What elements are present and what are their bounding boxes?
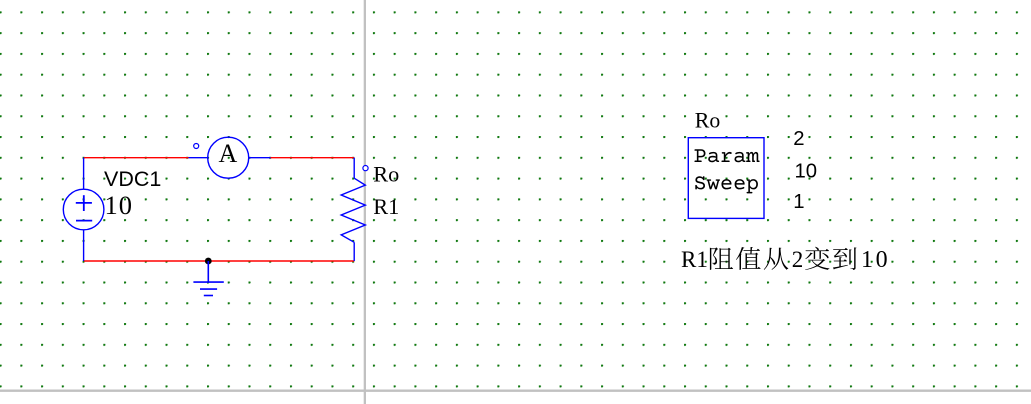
svg-text:A: A [219,139,238,168]
page boundary horizontal line [0,390,1031,392]
wire: top-right horizontal red net from ammeter to resistor [271,157,355,159]
ground symbol [193,261,223,296]
svg-text:10: 10 [795,160,818,182]
text Param [694,149,759,162]
node bubble at resistor top [363,166,368,171]
page boundary vertical line [364,0,366,404]
resistor R1 [341,158,365,261]
svg-text:1: 1 [793,191,804,213]
ammeter U1 [208,137,249,178]
wire: ammeter left blue pin stub [189,157,209,159]
param sweep box [688,138,764,219]
svg-text:R1: R1 [373,194,399,219]
voltage source VDC1 [63,158,104,261]
annotation text: R1 resistance sweeps from 2 to 10 [681,247,890,273]
text Sweep [695,176,758,193]
node bubble left of ammeter [194,144,199,149]
svg-text:Ro: Ro [695,108,721,132]
wire: top-left horizontal red net from VDC1 to ammeter [84,157,189,159]
svg-text:Ro: Ro [373,162,399,187]
svg-text:2: 2 [792,247,804,272]
svg-text:10: 10 [861,247,890,273]
wire: bottom horizontal red net [84,260,354,262]
junction dot at ground connection [205,258,212,265]
wire: ammeter right blue pin stub [249,157,271,159]
svg-text:2: 2 [793,128,804,150]
svg-text:R1: R1 [681,247,708,272]
svg-text:10: 10 [105,190,134,220]
svg-text:VDC1: VDC1 [104,167,161,191]
